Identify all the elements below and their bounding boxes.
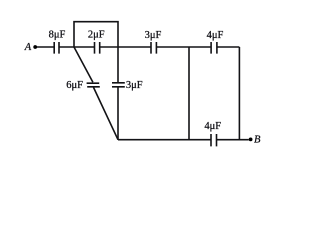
- svg-text:6μF: 6μF: [66, 80, 83, 91]
- svg-text:4μF: 4μF: [207, 30, 224, 41]
- svg-text:3μF: 3μF: [145, 30, 162, 41]
- svg-text:4μF: 4μF: [204, 121, 221, 132]
- svg-text:2μF: 2μF: [88, 30, 105, 41]
- svg-text:A: A: [24, 42, 32, 53]
- svg-text:8μF: 8μF: [49, 30, 66, 41]
- svg-text:B: B: [254, 135, 261, 146]
- svg-text:3μF: 3μF: [126, 80, 143, 91]
